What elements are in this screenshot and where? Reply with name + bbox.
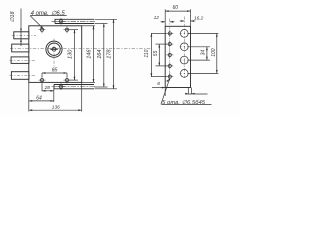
svg-text:178: 178 xyxy=(107,49,113,59)
dimension 65 between bottom holes xyxy=(42,72,67,77)
bottom flange strip xyxy=(52,85,96,89)
cylinder vertical centerline xyxy=(53,39,55,74)
svg-text:∅18: ∅18 xyxy=(10,11,16,22)
extension right edge up xyxy=(190,9,192,26)
svg-text:16,2: 16,2 xyxy=(194,16,204,22)
small hole 4 xyxy=(166,62,173,69)
plate outline xyxy=(165,26,190,87)
big hole column centerline xyxy=(183,17,185,79)
small hole 1 xyxy=(166,30,173,37)
dimension 136 xyxy=(29,109,82,111)
dimension 28 xyxy=(42,90,54,92)
hole A extension down for 28 xyxy=(41,84,43,92)
bolt tab 4 xyxy=(11,72,28,80)
dimension 178 line xyxy=(95,19,118,89)
svg-text:65: 65 xyxy=(52,67,58,73)
dimension 8 left xyxy=(152,87,165,96)
small hole column centerline xyxy=(169,19,171,81)
big hole 2 xyxy=(180,43,189,51)
diameter 18 dimension xyxy=(20,9,22,47)
big hole 4 xyxy=(180,70,189,78)
svg-text:4 отв. ∅6,5: 4 отв. ∅6,5 xyxy=(31,10,66,17)
dimension 16,2 xyxy=(180,20,196,22)
svg-text:64: 64 xyxy=(36,96,42,102)
dimension 130 line xyxy=(67,30,78,80)
big hole 3 xyxy=(180,56,189,64)
svg-text:55: 55 xyxy=(153,50,159,56)
extension left edge up xyxy=(164,9,166,26)
extension line body top to 146 xyxy=(82,25,95,27)
hole in bottom flange xyxy=(57,83,65,90)
svg-text:28: 28 xyxy=(44,85,51,91)
svg-text:164: 164 xyxy=(97,49,103,58)
cylinder keyway slot xyxy=(50,48,57,50)
right view dimensions xyxy=(151,9,219,104)
svg-text:130: 130 xyxy=(68,49,74,59)
bolt tab 3 xyxy=(11,57,29,64)
svg-text:60: 60 xyxy=(173,5,179,11)
svg-text:146: 146 xyxy=(87,49,93,59)
dimension 55 xyxy=(156,44,168,66)
body outline xyxy=(29,26,82,83)
main horizontal centerline through cylinder axis xyxy=(10,48,151,50)
svg-text:8: 8 xyxy=(157,81,160,87)
dimension 12 xyxy=(161,21,175,23)
small hole 2 xyxy=(166,41,173,48)
cylinder outer circle xyxy=(46,41,62,57)
dimension 146 line xyxy=(93,26,95,83)
body hole bottom-left xyxy=(39,77,46,84)
leader 5 holes xyxy=(161,79,212,105)
dimension 110 xyxy=(151,33,167,76)
small hole 3 xyxy=(166,51,173,58)
bolt tab 2 xyxy=(12,44,29,52)
dimension 34 xyxy=(189,47,210,60)
dimension 164 line xyxy=(95,24,108,88)
body hole top-right xyxy=(64,26,71,33)
dimension lines group xyxy=(20,9,117,112)
svg-text:110: 110 xyxy=(144,49,150,57)
body hole top-left xyxy=(39,26,46,33)
body right extension down for 136 xyxy=(81,82,83,111)
bolt tab 1 xyxy=(14,32,29,39)
dimension 100 xyxy=(189,33,219,73)
cylinder inner circle xyxy=(48,43,60,55)
dimension 60 xyxy=(165,10,190,12)
bolt tab 3 centerline xyxy=(10,59,37,61)
hole in top flange xyxy=(57,18,65,25)
svg-text:34: 34 xyxy=(201,50,207,56)
bottom right mini dimension xyxy=(185,88,208,95)
svg-text:12: 12 xyxy=(154,15,160,21)
body hole bottom-right xyxy=(64,77,71,84)
cylinder hub xyxy=(52,47,56,51)
flange left extension down xyxy=(53,89,55,102)
big hole 1 xyxy=(180,30,189,38)
bolt tab 4 centerline xyxy=(10,75,37,77)
body left extension down xyxy=(28,82,30,111)
leader 4 holes xyxy=(30,16,66,30)
top flange strip xyxy=(52,19,96,23)
small hole 5 xyxy=(166,73,173,80)
bolt tab 1 centerline xyxy=(12,34,36,36)
svg-text:100: 100 xyxy=(211,48,217,57)
extension line body bottom to 146 xyxy=(82,81,95,83)
svg-text:136: 136 xyxy=(52,104,60,110)
dimension 64 xyxy=(29,100,54,102)
svg-text:5 отв. ∅6,5б45: 5 отв. ∅6,5б45 xyxy=(162,99,206,106)
